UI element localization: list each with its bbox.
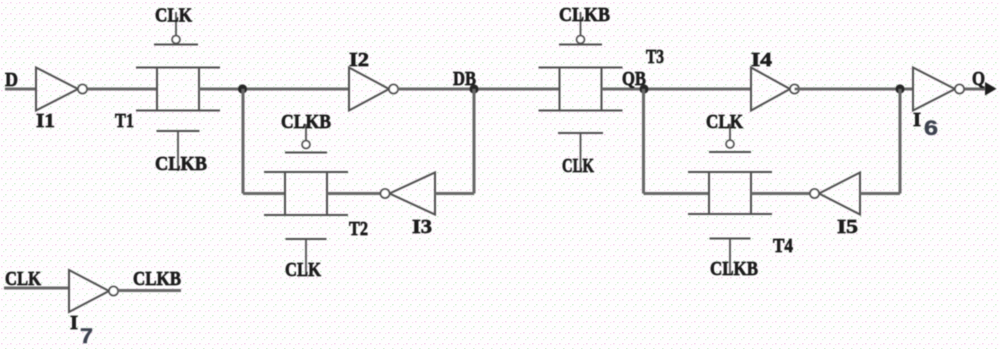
node D input label: [5, 69, 18, 91]
svg-text:CLKB: CLKB: [155, 153, 207, 175]
svg-text:I5: I5: [837, 216, 858, 238]
wire node QB down: [642, 89, 645, 194]
svg-text:T1: T1: [115, 110, 134, 132]
wire I5 to node B drop: [860, 192, 900, 195]
label CLKB at T3 top: [559, 4, 610, 26]
svg-text:I2: I2: [349, 49, 369, 71]
wire DB down: [473, 89, 476, 194]
wire T3 to I4 with node QB: [602, 88, 752, 91]
inverter I3: [381, 173, 436, 215]
label I5: [837, 216, 858, 238]
wire to T2 left: [243, 192, 285, 195]
label I6: [913, 109, 938, 140]
node B junction: [895, 84, 904, 93]
inverter I1: [36, 68, 87, 111]
label T2: [349, 218, 368, 240]
inverter I6: [913, 68, 964, 111]
label I4: [751, 49, 772, 71]
transmission gate T3: [539, 68, 623, 111]
inverter I5: [810, 173, 860, 215]
node QB junction: [639, 84, 648, 93]
T3 NMOS gate control CLK: [558, 133, 603, 171]
svg-text:CLKB: CLKB: [133, 268, 181, 290]
transmission gate T4: [688, 172, 772, 214]
svg-text:CLKB: CLKB: [281, 111, 331, 133]
label Q: [972, 68, 985, 90]
svg-text:CLK: CLK: [155, 5, 192, 27]
svg-text:I1: I1: [36, 110, 55, 132]
wire to T4 left: [644, 192, 710, 195]
label CLK at T1 top: [155, 5, 192, 27]
svg-text:I: I: [913, 109, 921, 131]
svg-text:I3: I3: [412, 216, 432, 238]
label T1: [115, 110, 134, 132]
label I3: [412, 216, 432, 238]
label I2: [349, 49, 369, 71]
label I1: [36, 110, 55, 132]
wire node B down: [899, 89, 902, 194]
label CLKB at T1 bottom: [155, 153, 207, 175]
T2 PMOS gate control CLKB: [285, 124, 327, 153]
svg-text:6: 6: [924, 117, 938, 140]
svg-text:CLK: CLK: [706, 111, 743, 133]
inverter I2: [349, 68, 398, 111]
inverter I4: [751, 68, 799, 111]
wire D input: [5, 88, 36, 91]
svg-text:I: I: [70, 312, 78, 334]
wire I6 to Q: [965, 88, 987, 91]
label CLKB at T2 top: [281, 111, 331, 133]
T4 NMOS gate control CLKB: [710, 239, 751, 275]
svg-text:Q: Q: [972, 68, 985, 90]
svg-text:7: 7: [80, 325, 93, 348]
wire T4 to I5 bubble: [751, 192, 810, 195]
label CLK at T2 bottom: [285, 259, 321, 281]
label CLK at T3 bottom: [562, 155, 594, 177]
node DB junction: [469, 84, 478, 93]
label I7: [70, 312, 93, 348]
inverter I7: [69, 270, 118, 312]
svg-text:T4: T4: [773, 235, 793, 257]
wire I2 to T3 with node DB: [398, 88, 560, 91]
wire CLK input: [4, 287, 69, 290]
wire I1 to T1: [88, 88, 158, 91]
label CLK input: [5, 268, 41, 290]
svg-text:CLKB: CLKB: [710, 258, 758, 280]
wire I4 to I6 with node B: [795, 88, 914, 91]
wire T2 to I3 bubble: [327, 192, 380, 195]
svg-text:T2: T2: [349, 218, 368, 240]
svg-text:I4: I4: [751, 49, 772, 71]
T4 PMOS gate control CLK: [709, 124, 751, 152]
T3 PMOS gate control CLKB: [559, 12, 602, 45]
Q output arrow: [985, 82, 997, 96]
wire node A down: [242, 89, 245, 194]
T1 NMOS gate control CLKB: [157, 131, 200, 171]
node A junction: [238, 84, 247, 93]
T2 NMOS gate control CLK: [286, 239, 327, 275]
svg-text:CLK: CLK: [562, 155, 594, 177]
label CLKB output: [133, 268, 181, 290]
svg-text:T3: T3: [646, 46, 664, 68]
label DB: [453, 68, 476, 90]
label CLK at T4 top: [706, 111, 743, 133]
wire T1 to I2: [199, 88, 350, 91]
svg-text:CLK: CLK: [285, 259, 321, 281]
wire I3 to DB drop: [435, 192, 474, 195]
transmission gate T2: [264, 172, 348, 215]
T1 PMOS gate control CLK: [154, 12, 198, 45]
label T4: [773, 235, 793, 257]
transmission gate T1: [136, 68, 220, 111]
label CLKB at T4 bottom: [710, 258, 758, 280]
svg-text:CLKB: CLKB: [559, 4, 610, 26]
wire I7 to CLKB: [118, 289, 181, 292]
label QB: [622, 68, 646, 90]
label T3: [646, 46, 664, 68]
